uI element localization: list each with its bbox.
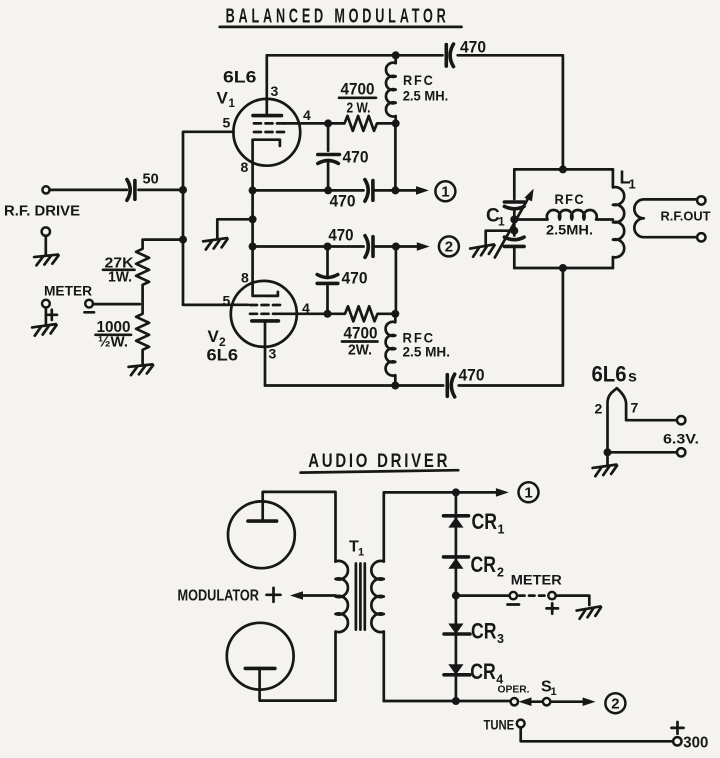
svg-text:1: 1: [629, 177, 636, 192]
svg-text:470: 470: [328, 226, 353, 245]
svg-text:TUNE: TUNE: [484, 716, 515, 732]
svg-text:CR: CR: [472, 509, 498, 534]
svg-text:RFC: RFC: [403, 72, 435, 88]
svg-text:2.5 MH.: 2.5 MH.: [403, 345, 451, 360]
svg-text:METER: METER: [44, 284, 92, 299]
svg-text:2.5MH.: 2.5MH.: [546, 223, 593, 238]
svg-text:6L6: 6L6: [207, 346, 239, 365]
svg-text:470: 470: [330, 192, 356, 211]
svg-text:1: 1: [498, 523, 505, 537]
svg-text:1: 1: [498, 215, 505, 229]
svg-text:R.F.OUT: R.F.OUT: [661, 210, 711, 224]
svg-text:BALANCED MODULATOR: BALANCED MODULATOR: [226, 5, 450, 27]
svg-text:CR: CR: [471, 552, 497, 577]
svg-text:6L6: 6L6: [223, 68, 257, 87]
svg-text:3: 3: [269, 346, 277, 362]
svg-text:s: s: [628, 369, 637, 386]
svg-text:5: 5: [223, 115, 231, 131]
svg-text:2: 2: [595, 401, 603, 417]
svg-text:4700: 4700: [344, 324, 378, 343]
svg-text:V: V: [217, 89, 229, 108]
svg-text:AUDIO DRIVER: AUDIO DRIVER: [308, 451, 450, 472]
svg-text:1: 1: [229, 98, 236, 110]
svg-text:V: V: [208, 327, 220, 346]
svg-text:8: 8: [241, 270, 249, 286]
svg-text:MODULATOR: MODULATOR: [178, 587, 260, 604]
svg-text:1: 1: [441, 184, 449, 201]
svg-text:1: 1: [551, 686, 557, 698]
svg-text:METER: METER: [511, 573, 562, 588]
svg-text:8: 8: [241, 159, 249, 175]
svg-text:4: 4: [303, 107, 311, 123]
svg-text:1: 1: [524, 485, 532, 502]
svg-text:1W.: 1W.: [108, 269, 132, 286]
svg-text:R.F. DRIVE: R.F. DRIVE: [4, 203, 80, 220]
svg-text:½W.: ½W.: [98, 334, 128, 351]
svg-text:470: 470: [459, 366, 485, 385]
svg-text:2 W.: 2 W.: [347, 100, 371, 117]
svg-text:1: 1: [358, 547, 364, 559]
svg-text:6L6: 6L6: [592, 362, 627, 387]
svg-text:4: 4: [302, 300, 310, 316]
svg-text:470: 470: [343, 148, 369, 167]
svg-text:CR: CR: [471, 619, 497, 644]
svg-text:RFC: RFC: [403, 330, 436, 346]
svg-text:4700: 4700: [341, 80, 375, 99]
svg-text:3: 3: [271, 83, 279, 99]
svg-text:470: 470: [460, 38, 486, 57]
svg-text:470: 470: [342, 269, 368, 288]
svg-text:6.3V.: 6.3V.: [663, 431, 699, 447]
svg-text:2.5 MH.: 2.5 MH.: [403, 89, 449, 104]
svg-text:2W.: 2W.: [348, 342, 372, 359]
svg-text:2: 2: [445, 239, 453, 256]
svg-text:50: 50: [143, 172, 159, 188]
svg-text:RFC: RFC: [555, 191, 586, 207]
svg-text:CR: CR: [470, 659, 496, 684]
svg-text:2: 2: [611, 696, 619, 713]
svg-text:3: 3: [497, 632, 504, 646]
svg-text:300: 300: [683, 735, 708, 752]
svg-text:5: 5: [223, 293, 231, 309]
svg-text:2: 2: [497, 566, 504, 580]
svg-text:7: 7: [631, 400, 639, 416]
svg-text:OPER.: OPER.: [498, 685, 530, 696]
